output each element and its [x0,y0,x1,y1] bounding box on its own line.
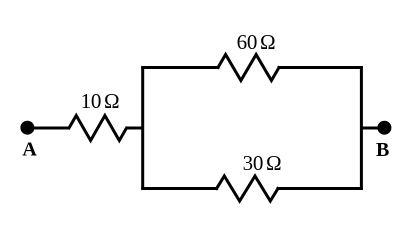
svg-text:B: B [376,139,389,161]
svg-text:A: A [22,139,37,161]
wire bottom right [278,187,361,190]
resistor R3 30Ω [217,176,278,201]
wire top right [279,66,361,69]
svg-text:60 Ω: 60 Ω [237,30,276,54]
resistor R1 10Ω [69,116,127,141]
resistor R2 60Ω [218,55,279,81]
svg-text:30 Ω: 30 Ω [243,151,282,175]
svg-text:10 Ω: 10 Ω [81,89,120,113]
wire A to R1 [27,127,69,130]
wire top left [143,66,218,69]
terminal A [20,121,34,135]
wire right vertical (node D) [360,68,363,189]
wire left vertical (node C) [141,68,144,189]
terminal B [377,121,391,135]
wire stub to B [361,127,380,130]
wire R1 to node C [127,127,143,130]
wire bottom left [143,187,217,190]
